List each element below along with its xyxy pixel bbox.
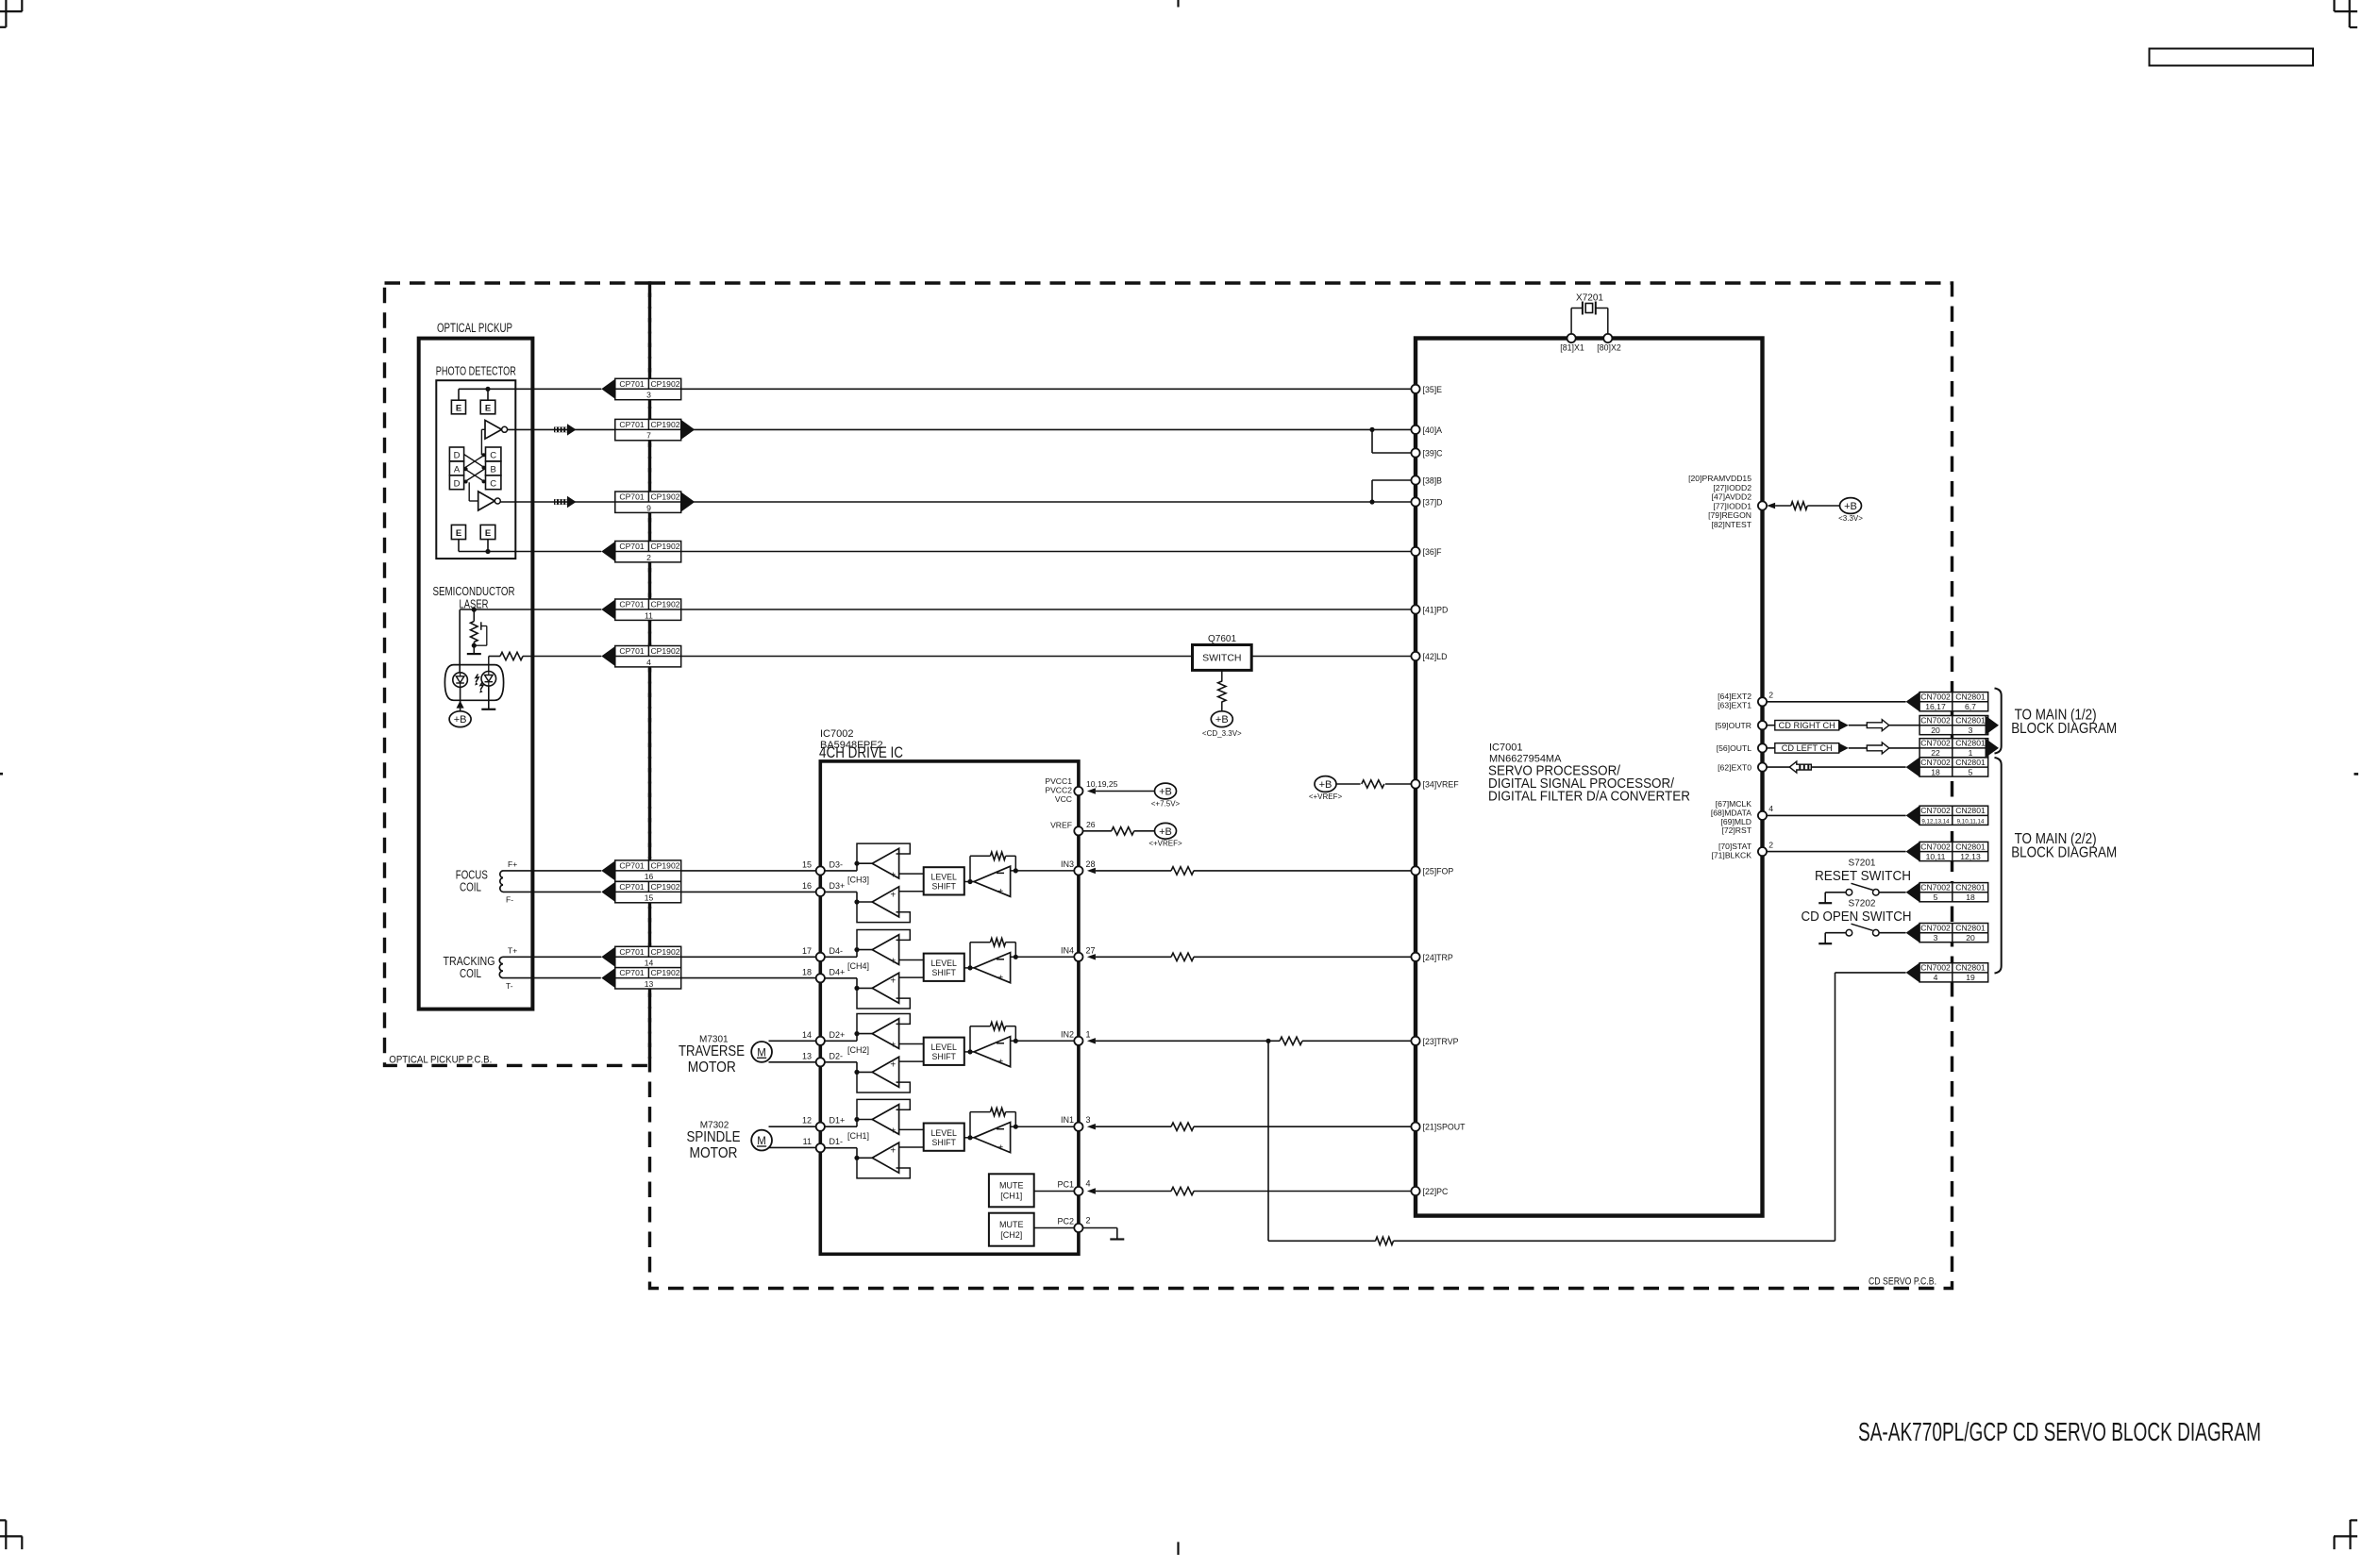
svg-text:14: 14 [802, 1030, 812, 1040]
svg-text:CP1902: CP1902 [650, 646, 679, 656]
svg-text:7: 7 [646, 431, 651, 441]
svg-text:CP701: CP701 [619, 542, 644, 551]
wire PC2 to ground [1083, 1228, 1117, 1240]
svg-text:M: M [757, 1136, 766, 1147]
svg-text:[38]B: [38]B [1423, 476, 1443, 486]
light emission arrows [475, 675, 483, 693]
svg-text:+B: +B [1844, 501, 1857, 512]
svg-text:IC7001: IC7001 [1489, 742, 1522, 754]
svg-text:[64]EXT2: [64]EXT2 [1718, 692, 1751, 701]
svg-text:IN3: IN3 [1061, 859, 1074, 869]
svg-text:VCC: VCC [1055, 794, 1072, 804]
wire E row (photo det to [35]E) [459, 388, 1411, 390]
wire PD row [460, 609, 1411, 610]
wire T- row [503, 977, 601, 979]
svg-text:+: + [890, 1146, 896, 1157]
svg-text:1: 1 [1969, 748, 1973, 758]
connector CP701/CP1902 pin 14 (T+) [601, 946, 680, 967]
svg-text:IN2: IN2 [1061, 1029, 1074, 1039]
svg-text:4: 4 [646, 658, 651, 667]
wire PVCC to +B [1096, 791, 1154, 792]
svg-text:M: M [757, 1047, 766, 1059]
pin IN3 [1061, 859, 1096, 876]
signal direction arrow (OUTR) [1867, 720, 1889, 731]
svg-text:CN7002: CN7002 [1920, 883, 1951, 892]
svg-text:CN2801: CN2801 [1955, 963, 1986, 973]
label TRACKING COIL [444, 955, 495, 980]
svg-text:C: C [490, 451, 496, 461]
svg-text:[82]NTEST: [82]NTEST [1711, 520, 1751, 529]
svg-text:CD LEFT CH: CD LEFT CH [1782, 743, 1833, 753]
svg-text:[22]PC: [22]PC [1423, 1187, 1450, 1196]
connector CP701/CP1902 pin 16 (F+) [601, 860, 680, 881]
label IC7001 [1489, 742, 1522, 754]
wire D2- to lower driver [816, 1062, 872, 1075]
svg-text:9,10,11,14: 9,10,11,14 [1957, 819, 1985, 826]
wire A row [508, 427, 1412, 432]
label [CH2] [847, 1045, 869, 1055]
svg-text:A: A [454, 464, 461, 475]
wire F- row [503, 891, 601, 892]
wire F+ row to pin15 [681, 870, 816, 872]
svg-text:[56]OUTL: [56]OUTL [1717, 743, 1751, 753]
label S7202 CD OPEN SWITCH [1802, 899, 1912, 926]
svg-text:X7201: X7201 [1576, 293, 1603, 304]
svg-text:[40]A: [40]A [1423, 425, 1443, 435]
svg-text:20: 20 [1966, 933, 1975, 942]
svg-text:11: 11 [645, 610, 653, 620]
connector CP701/CP1902 pin 13 (T-) [601, 968, 680, 989]
wire OUTL to CN [1849, 747, 1919, 749]
page corner mark top-left [0, 0, 23, 27]
svg-text:PHOTO DETECTOR: PHOTO DETECTOR [436, 364, 516, 378]
feedback resistor R [CH2] [970, 1023, 1018, 1052]
svg-text:3: 3 [646, 391, 651, 400]
svg-text:OPTICAL PICKUP: OPTICAL PICKUP [437, 321, 512, 335]
wire STAT/BLKCK to CN [1767, 851, 1906, 853]
IC U7001 box (MN6627954MA SERVO PROCESSOR) [1416, 339, 1763, 1216]
label DIGITAL FILTER D/A CONVERTER [1488, 789, 1690, 805]
brace TO MAIN (2/2) [1995, 758, 2002, 974]
svg-text:CP701: CP701 [619, 646, 644, 656]
wire IN4 to [24]TRP with resistor [1096, 953, 1412, 960]
svg-text:[25]FOP: [25]FOP [1423, 866, 1454, 876]
label OPTICAL PICKUP P.C.B. [389, 1055, 492, 1066]
svg-text:[CH2]: [CH2] [847, 1045, 869, 1055]
photo detector segment C (lower) [486, 475, 501, 490]
svg-text:19: 19 [1966, 973, 1975, 982]
svg-text:18: 18 [1966, 892, 1975, 902]
svg-text:[20]PRAMVDD15: [20]PRAMVDD15 [1688, 474, 1751, 483]
pin [40]A [1411, 425, 1442, 435]
connector CP701/CP1902 pin 9 (B/D) [615, 492, 695, 512]
connector CP701/CP1902 pin 3 (E) [601, 378, 680, 399]
svg-text:CP701: CP701 [619, 882, 644, 892]
svg-text:+: + [890, 890, 896, 900]
driver amplifiers [CH4] [857, 930, 910, 1009]
wire MCLK group to CN [1767, 814, 1906, 816]
feedback op-amp [CH4] [964, 953, 1011, 984]
pin 14 D2+ [802, 1030, 845, 1045]
svg-text:CN7002: CN7002 [1920, 758, 1951, 767]
wire MUTE CH2 to PC2 [1034, 1227, 1083, 1229]
pin 11 D1- [803, 1137, 843, 1152]
svg-text:CD OPEN SWITCH: CD OPEN SWITCH [1802, 909, 1912, 925]
photo detector segment D (upper) [449, 447, 463, 461]
photo detector box [436, 380, 515, 559]
svg-text:[70]STAT: [70]STAT [1718, 842, 1752, 851]
svg-text:[36]F: [36]F [1423, 547, 1443, 557]
label IC7002 [820, 728, 853, 740]
svg-text:[72]RST: [72]RST [1721, 826, 1751, 835]
wire TRVP feedback with resistor [1268, 973, 1906, 1245]
blank label box top-right [2150, 49, 2314, 66]
svg-text:F+: F+ [508, 859, 517, 869]
svg-text:[35]E: [35]E [1423, 385, 1443, 394]
svg-text:3: 3 [1969, 726, 1973, 735]
LEVEL SHIFT block [CH2] [899, 1038, 964, 1065]
svg-text:CP1902: CP1902 [650, 492, 679, 502]
svg-text:MUTE: MUTE [999, 1220, 1024, 1229]
svg-text:PVCC1: PVCC1 [1045, 776, 1072, 786]
svg-text:2: 2 [1768, 840, 1773, 849]
svg-text:LEVEL: LEVEL [931, 1128, 957, 1138]
page tick right-edge [2354, 773, 2358, 776]
svg-text:D2+: D2+ [830, 1030, 846, 1040]
driver amplifiers [CH1] [857, 1099, 910, 1178]
connector CN7002/CN2801 4|19 [1906, 962, 1988, 982]
wire D1+ to upper driver [816, 1117, 872, 1126]
svg-text:CD RIGHT CH: CD RIGHT CH [1779, 721, 1835, 730]
resistor R (PD series) [489, 652, 602, 671]
svg-text:TRAVERSE: TRAVERSE [679, 1043, 745, 1059]
svg-text:15: 15 [802, 859, 812, 869]
svg-text:2: 2 [646, 553, 651, 562]
svg-text:DIGITAL FILTER D/A CONVERTER: DIGITAL FILTER D/A CONVERTER [1488, 789, 1690, 805]
label [CH4] [847, 961, 869, 971]
pin [41]PD [1411, 605, 1448, 614]
svg-text:SHIFT: SHIFT [931, 882, 956, 892]
svg-text:12,13: 12,13 [1960, 852, 1981, 861]
svg-text:PC1: PC1 [1057, 1180, 1074, 1190]
wire PD cathode to ground [488, 686, 490, 709]
page corner mark bottom-right [2334, 1520, 2357, 1549]
svg-text:10,11: 10,11 [1926, 852, 1946, 861]
svg-text:MOTOR: MOTOR [690, 1145, 738, 1161]
power +B <+VREF> (IC7002) [1148, 823, 1182, 847]
svg-text:[47]AVDD2: [47]AVDD2 [1712, 492, 1752, 502]
label 4CH DRIVE IC [819, 743, 903, 761]
connector CP701/CP1902 pin 15 (F-) [601, 881, 680, 902]
wire T+ row [503, 956, 601, 958]
svg-text:[63]EXT1: [63]EXT1 [1718, 701, 1751, 710]
wire IN3 to op-amp [1011, 870, 1083, 872]
svg-text:PC2: PC2 [1057, 1217, 1074, 1226]
svg-text:CN7002: CN7002 [1920, 923, 1951, 932]
wire M7301 to pin13 [769, 1061, 816, 1063]
pin [56]OUTL [1717, 743, 1767, 753]
pin [59]OUTR [1715, 721, 1767, 730]
feedback resistor R [CH1] [970, 1108, 1018, 1137]
label PHOTO DETECTOR [436, 364, 516, 378]
svg-text:+B: +B [454, 714, 467, 726]
laser package outline [444, 665, 503, 701]
optical pickup box [419, 339, 533, 1009]
wire T+ row to pin17 [681, 956, 816, 958]
transistor Q7601 SWITCH block [1193, 634, 1252, 670]
connector CN7002/CN2801 16,17|6,7 [1906, 692, 1988, 711]
svg-text:11: 11 [803, 1137, 812, 1146]
label OPTICAL PICKUP [437, 321, 512, 335]
connector CP701/CP1902 pin 11 (PD) [601, 599, 680, 620]
wire D row [500, 499, 1411, 504]
svg-text:[CH1]: [CH1] [1000, 1192, 1022, 1201]
pin PVCC1 PVCC2 VCC [1045, 776, 1117, 804]
label MN6627954MA [1489, 754, 1562, 765]
svg-text:[42]LD: [42]LD [1423, 652, 1448, 661]
ground (S7201) [1819, 902, 1832, 904]
svg-text:TRACKING: TRACKING [444, 955, 495, 968]
node CD LEFT CH [1767, 743, 1849, 754]
svg-text:15: 15 [645, 893, 654, 903]
svg-text:MUTE: MUTE [999, 1181, 1024, 1191]
svg-text:+: + [890, 1060, 896, 1071]
svg-text:SA-AK770PL/GCP CD SERVO BLOCK: SA-AK770PL/GCP CD SERVO BLOCK DIAGRAM [1858, 1417, 2261, 1446]
svg-text:BLOCK DIAGRAM: BLOCK DIAGRAM [2011, 721, 2117, 737]
svg-text:D3+: D3+ [830, 881, 846, 891]
svg-text:OPTICAL PICKUP P.C.B.: OPTICAL PICKUP P.C.B. [389, 1055, 492, 1066]
svg-text:D4+: D4+ [830, 967, 846, 976]
LEVEL SHIFT block [CH1] [899, 1124, 964, 1151]
svg-text:2: 2 [1086, 1216, 1091, 1226]
svg-text:CN7002: CN7002 [1920, 692, 1951, 702]
svg-text:20: 20 [1931, 726, 1940, 735]
svg-text:CN2801: CN2801 [1955, 806, 1986, 815]
wire EXT0 to CN [1767, 766, 1906, 768]
connector CN7002/CN2801 5|18 [1906, 882, 1988, 902]
svg-text:[80]X2: [80]X2 [1597, 343, 1621, 353]
svg-text:MOTOR: MOTOR [688, 1059, 736, 1076]
svg-text:[CH1]: [CH1] [847, 1131, 869, 1141]
svg-text:CP701: CP701 [619, 492, 644, 502]
wire F+ row [503, 870, 601, 872]
pin IN4 [1061, 945, 1096, 961]
svg-text:[39]C: [39]C [1423, 449, 1444, 459]
svg-text:D: D [454, 451, 461, 461]
feedback op-amp [CH2] [964, 1037, 1011, 1068]
pin 18 D4+ [802, 967, 845, 982]
svg-text:CP701: CP701 [619, 968, 644, 977]
svg-text:CN7002: CN7002 [1920, 842, 1951, 851]
ground (S7202) [1819, 942, 1832, 944]
title SA-AK770PL/GCP CD SERVO BLOCK DIAGRAM [1858, 1417, 2261, 1446]
svg-text:CP701: CP701 [619, 600, 644, 609]
wire PC1 to [22]PC with resistor [1096, 1187, 1412, 1194]
pin [37]D [1411, 497, 1442, 507]
svg-text:27: 27 [1086, 945, 1096, 955]
wire B row [1372, 480, 1411, 502]
svg-text:4CH DRIVE IC: 4CH DRIVE IC [819, 743, 903, 761]
svg-text:26: 26 [1086, 820, 1096, 829]
resistor R (Q7601 base) [1218, 670, 1226, 710]
wire LD cathode up to PD row [460, 608, 477, 673]
power +B <+7.5V> [1151, 783, 1181, 808]
wire F row [459, 551, 1411, 553]
page corner mark top-right [2335, 0, 2358, 27]
svg-text:17: 17 [802, 946, 812, 956]
label DIGITAL SIGNAL PROCESSOR/ [1488, 776, 1675, 792]
svg-text:+: + [997, 1058, 1003, 1068]
wire D4- to upper driver [816, 947, 872, 957]
connector CN7002/CN2801 20|3 [1919, 715, 1999, 735]
power +B <CD_3.3V> [1202, 711, 1242, 738]
pin [64]EXT2 [63]EXT1 [1718, 691, 1773, 710]
pin [80]X2 [1597, 334, 1621, 353]
wire M7302 to pin12 [769, 1126, 816, 1127]
svg-text:[37]D: [37]D [1423, 498, 1443, 508]
svg-text:[24]TRP: [24]TRP [1423, 953, 1453, 962]
svg-text:C: C [490, 478, 496, 489]
svg-text:SPINDLE: SPINDLE [687, 1129, 741, 1145]
svg-text:16: 16 [645, 872, 654, 881]
wire E boxes to F row [459, 540, 491, 555]
label TO MAIN (2/2) BLOCK DIAGRAM [2011, 831, 2117, 861]
pin 13 D2- [802, 1051, 843, 1066]
wire D2+ to upper driver [816, 1031, 872, 1041]
pin [62]EXT0 [1718, 762, 1767, 772]
pin VREF 26 [1050, 820, 1096, 835]
cross wires detector matrix [464, 453, 486, 483]
svg-text:[41]PD: [41]PD [1423, 606, 1449, 615]
svg-text:COIL: COIL [460, 881, 481, 894]
svg-text:S7201: S7201 [1849, 859, 1876, 869]
svg-text:CN2801: CN2801 [1955, 842, 1986, 851]
crystal X7201 [1571, 293, 1608, 335]
svg-text:18: 18 [802, 967, 812, 976]
svg-text:VREF: VREF [1050, 821, 1072, 830]
svg-text:<+VREF>: <+VREF> [1148, 840, 1182, 848]
svg-text:[CH4]: [CH4] [847, 961, 869, 971]
svg-text:SHIFT: SHIFT [931, 968, 956, 977]
motor M7302 SPINDLE MOTOR [687, 1120, 772, 1161]
svg-text:[21]SPOUT: [21]SPOUT [1423, 1123, 1467, 1132]
svg-text:SHIFT: SHIFT [931, 1052, 956, 1061]
pin PC2 2 [1057, 1216, 1090, 1233]
label CD SERVO P.C.B. [1869, 1276, 1936, 1288]
svg-text:+B: +B [1159, 826, 1172, 838]
svg-text:3: 3 [1086, 1115, 1091, 1125]
svg-text:CP1902: CP1902 [650, 542, 679, 551]
svg-text:SWITCH: SWITCH [1202, 653, 1241, 664]
wire EXT2/EXT1 to CN [1767, 701, 1906, 703]
pin [39]C [1411, 448, 1443, 458]
driver amplifiers [CH2] [857, 1014, 910, 1093]
photo detector segment B [486, 461, 501, 475]
svg-text:E: E [485, 404, 491, 414]
photo detector segment C (upper) [486, 447, 501, 461]
wire E boxes to E row [459, 387, 491, 401]
label TO MAIN (1/2) BLOCK DIAGRAM [2011, 707, 2117, 737]
power +B <+VREF> (servo VREF) [1309, 776, 1343, 801]
power +B (laser supply) [449, 711, 471, 727]
svg-text:T+: T+ [508, 945, 517, 955]
svg-text:5: 5 [1934, 892, 1938, 902]
svg-text:CN7002: CN7002 [1920, 739, 1951, 748]
svg-text:CP1902: CP1902 [650, 379, 679, 389]
wire D4+ to lower driver [816, 978, 872, 991]
svg-text:13: 13 [802, 1051, 812, 1060]
svg-text:CN2801: CN2801 [1955, 923, 1986, 932]
wire LD row left [681, 656, 1193, 658]
svg-text:FOCUS: FOCUS [456, 869, 488, 882]
svg-text:28: 28 [1086, 859, 1096, 869]
focus coil [500, 859, 517, 905]
pin [23]TRVP [1411, 1037, 1458, 1046]
svg-text:[CH2]: [CH2] [1000, 1230, 1022, 1240]
label SERVO PROCESSOR/ [1488, 763, 1621, 779]
svg-text:[CH3]: [CH3] [847, 876, 869, 885]
pin [70]STAT [71]BLKCK [1711, 840, 1773, 859]
label [CH1] [847, 1131, 869, 1141]
svg-text:CN7002: CN7002 [1920, 715, 1951, 725]
photo detector segment E (bottom-left) [451, 525, 465, 539]
svg-text:CP1902: CP1902 [650, 600, 679, 609]
svg-text:B: B [491, 464, 496, 475]
switch S7201 [1825, 883, 1905, 895]
wire MUTE CH1 to PC1 [1034, 1191, 1083, 1193]
svg-text:CP1902: CP1902 [650, 947, 679, 957]
label S7201 RESET SWITCH [1815, 859, 1911, 885]
striped arrow (B/D row) [554, 496, 577, 508]
svg-text:Q7601: Q7601 [1208, 634, 1236, 644]
feedback resistor R [CH4] [970, 939, 1018, 968]
svg-text:1: 1 [1086, 1029, 1091, 1039]
ground (photodiode) [481, 709, 495, 710]
pin IN2 [1061, 1029, 1096, 1045]
svg-text:+B: +B [1215, 714, 1229, 726]
LEVEL SHIFT block [CH4] [899, 954, 964, 981]
pin [24]TRP [1411, 953, 1452, 962]
wire IN1 to [21]SPOUT with resistor [1096, 1123, 1412, 1130]
svg-text:E: E [456, 528, 461, 539]
connector CP701/CP1902 pin 7 (A/C) [615, 419, 695, 440]
svg-text:4: 4 [1086, 1179, 1091, 1189]
svg-text:CP701: CP701 [619, 947, 644, 957]
wire IN3 to [25]FOP with resistor [1096, 867, 1412, 875]
svg-text:+B: +B [1319, 779, 1332, 791]
svg-text:T-: T- [506, 981, 513, 991]
striped arrow (A/C row) [554, 424, 577, 435]
LEVEL SHIFT block [CH3] [899, 867, 964, 894]
svg-text:+: + [890, 1041, 896, 1051]
switch S7202 [1825, 924, 1905, 936]
svg-text:[79]REGON: [79]REGON [1708, 510, 1751, 520]
svg-text:13: 13 [645, 979, 654, 989]
svg-text:SHIFT: SHIFT [931, 1138, 956, 1147]
svg-text:D3-: D3- [830, 859, 844, 869]
wire APC to ground [473, 645, 475, 654]
svg-text:<CD_3.3V>: <CD_3.3V> [1202, 729, 1242, 738]
label [CH3] [847, 876, 869, 885]
svg-text:D: D [454, 478, 461, 489]
svg-text:CN2801: CN2801 [1955, 692, 1986, 702]
svg-text:CP1902: CP1902 [650, 968, 679, 977]
photo detector segment A [449, 461, 463, 475]
svg-text:16,17: 16,17 [1925, 702, 1946, 711]
svg-text:IN1: IN1 [1061, 1115, 1074, 1125]
pin [35]E [1411, 385, 1442, 394]
svg-text:5: 5 [1969, 767, 1973, 776]
